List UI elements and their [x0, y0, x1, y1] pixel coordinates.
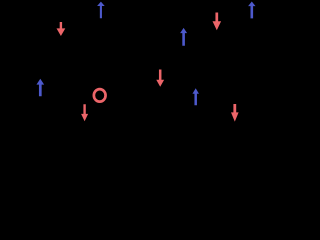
spin configuration diagram — [0, 0, 284, 125]
spin up S6 arrow — [36, 79, 44, 96]
spin up S3 arrow — [180, 28, 187, 46]
spin up S9 arrow — [192, 88, 199, 105]
spin down S7 arrow — [81, 104, 88, 121]
spin down S4 arrow — [213, 13, 222, 31]
spin up S2 arrow — [97, 2, 105, 19]
spin down S10 arrow — [231, 104, 239, 122]
spin down S1 arrow — [57, 22, 66, 36]
highlight ring (circled lattice site) — [94, 89, 106, 102]
spin up S5 arrow — [248, 2, 255, 19]
spin down S8 arrow — [156, 70, 164, 87]
